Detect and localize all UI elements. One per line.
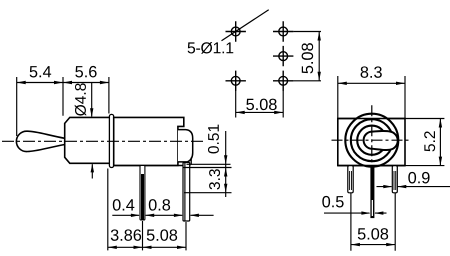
label 8.3 [361, 66, 382, 78]
dimension line 5.4-5.6 [17, 82, 109, 84]
label 3.86 [111, 229, 141, 241]
body top edge over circle [338, 118, 405, 120]
label 5.08 bottom-right [358, 228, 388, 240]
right view: body front [338, 119, 405, 166]
holes dimension 5.08 right: extension lines [293, 32, 321, 81]
dimension 0.51: extension lines [187, 163, 231, 165]
dimension 3.86 / 5.08 bottom-left: extension lines [108, 169, 186, 251]
dimension line 0.51 / 3.3 vertical [225, 131, 227, 197]
label 0.5 [322, 196, 343, 208]
label 5-Ø1.1 [188, 42, 234, 54]
dimension 5.08 bottom-right: extension lines [351, 193, 395, 251]
holes dimension 5.08 bottom: extension lines [236, 91, 284, 118]
right view vertical centerline [371, 105, 373, 172]
leader line for 5-Ø1.1 [222, 10, 269, 41]
pin P1 (side view, 0.4 thick) [140, 166, 145, 221]
hole H3 mid-right [279, 52, 288, 61]
label 5.4 [30, 66, 52, 77]
nut circle [351, 119, 393, 161]
label Ø4.8 (rotated) [75, 83, 87, 115]
flange washer [109, 114, 113, 167]
dimension 5.4 / 5.6 top: extension lines [17, 77, 109, 136]
dimension 8.3: extension lines [338, 76, 405, 118]
label 5.08 holes-bottom [246, 99, 276, 111]
toggle lever (side view teardrop) [16, 131, 64, 151]
dimension 0.9 lines [377, 186, 450, 188]
hole H4 bottom-left [231, 76, 240, 85]
label 3.3 (rotated) [209, 169, 220, 189]
lever (front view, pointing right) [364, 131, 398, 150]
label 5.08 [147, 229, 177, 241]
label 5.2 (rotated) [424, 131, 435, 151]
dimension 0.5 lines [324, 212, 387, 214]
arrowheads 0.51 and 3.3 [224, 155, 227, 192]
pin A (front view left) [348, 166, 353, 193]
bushing outer circle (front view) [345, 114, 398, 167]
dimension line [108, 246, 186, 248]
body bottom line [114, 165, 191, 167]
label 5.08 holes-right (rotated) [302, 43, 314, 73]
label 0.9 [408, 172, 429, 184]
arrowheads 5.4/5.6 [17, 81, 109, 84]
label 0.8 [149, 199, 170, 211]
pin B (front view center, long) [370, 166, 374, 219]
inner circle [357, 126, 386, 155]
pin C (front view right) [392, 166, 397, 193]
mounting bracket tab (side view) [178, 130, 193, 162]
hole pattern: hole H1 top-left [226, 21, 294, 91]
label 5.6 [75, 66, 96, 78]
hole H5 bottom-right [279, 76, 288, 85]
switch body (side view) [114, 117, 184, 165]
diameter 4.8 arrows [91, 83, 93, 117]
body bottom edge over circle [338, 165, 405, 167]
dimension 5.2: extension lines [405, 119, 444, 166]
pin P2 (side view, 0.8 thick) [183, 163, 190, 222]
dimension 0.4 / 0.8 lines [112, 214, 213, 216]
dimension 3.3 lower extension line [184, 192, 232, 194]
label 0.51 (rotated) [208, 125, 219, 154]
bushing (threaded neck, side view) [65, 117, 111, 163]
right view horizontal centerline [332, 139, 410, 141]
hole H2 top-right [279, 27, 288, 36]
bracket foot edge [190, 158, 192, 165]
left view horizontal centerline [2, 140, 204, 142]
label 0.4 [113, 199, 135, 211]
